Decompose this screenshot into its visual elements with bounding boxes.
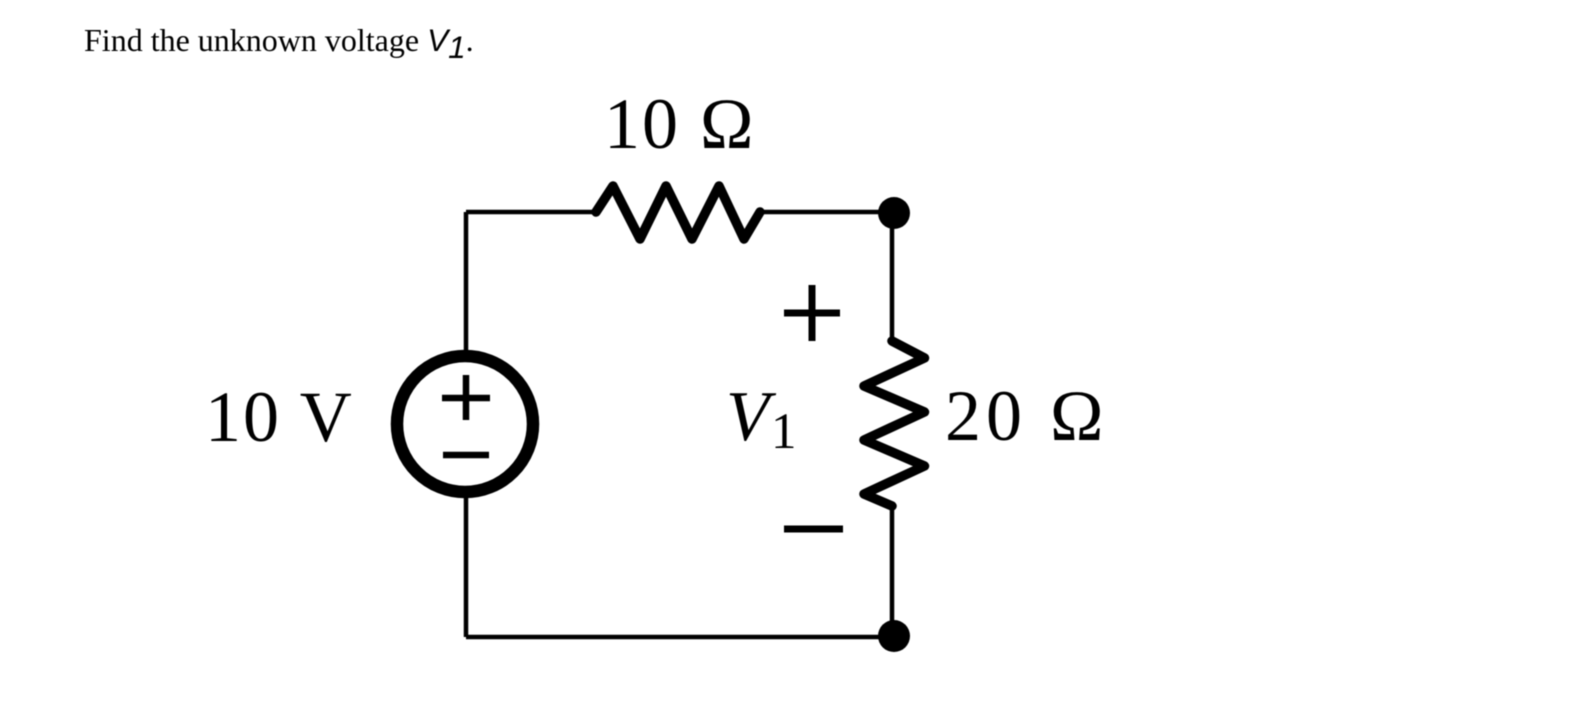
svg-text:1: 1 [771,404,797,460]
svg-text:20 Ω: 20 Ω [945,376,1109,456]
node dot bottom-right [878,620,910,652]
wire right lower segment [890,505,895,637]
svg-text:10 V: 10 V [205,377,354,457]
resistor R1 10ohm zigzag [596,186,760,239]
svg-text:V: V [726,378,777,456]
node dot top-right [878,197,910,229]
plus sign inside source [442,395,490,402]
wire left upper segment [464,212,469,354]
voltage source V 10V circle [397,356,533,492]
plus sign polarity V1 [784,310,840,317]
minus sign polarity V1 [784,526,843,533]
wire left lower segment [464,492,469,637]
resistor R2 20ohm zigzag [864,341,925,506]
svg-text:10 Ω: 10 Ω [604,84,756,164]
wire top-right segment [758,210,894,215]
wire top-left segment [466,210,598,215]
wire bottom [466,635,894,640]
wire right upper segment [890,213,895,343]
minus sign inside source [443,452,489,459]
